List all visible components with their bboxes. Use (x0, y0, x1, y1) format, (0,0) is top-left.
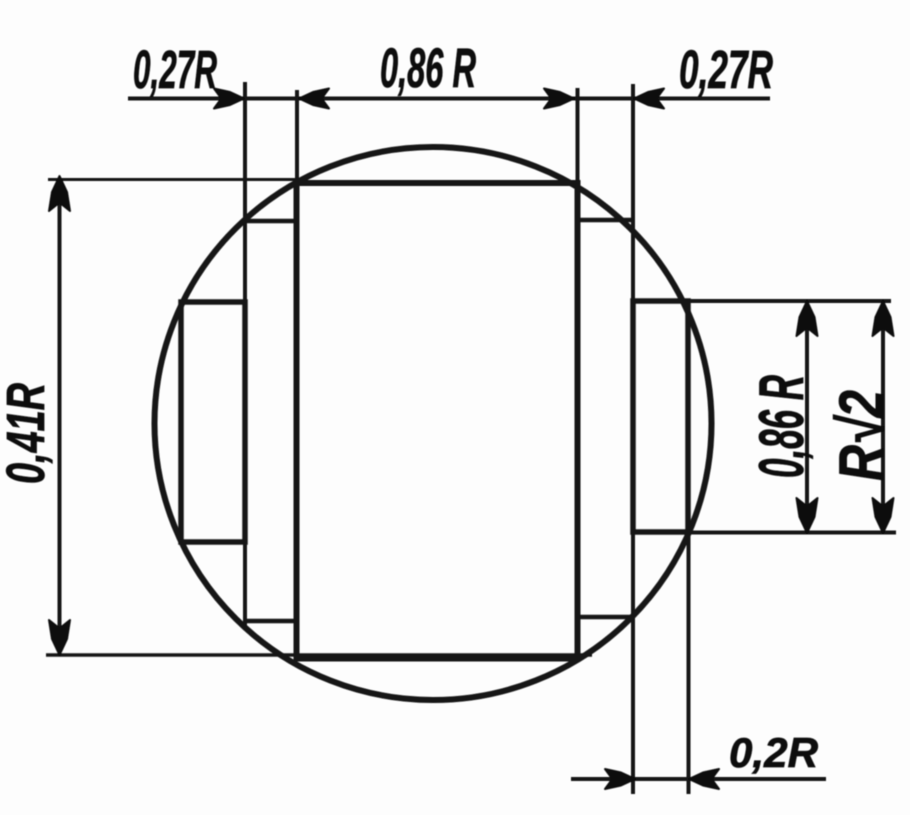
svg-text:0,86 R: 0,86 R (380, 36, 476, 99)
svg-text:0,27R: 0,27R (679, 40, 773, 100)
svg-text:0,86 R: 0,86 R (747, 375, 817, 478)
svg-text:0,27R: 0,27R (133, 40, 217, 100)
svg-text:0,2R: 0,2R (729, 729, 819, 776)
svg-text:R√2: R√2 (827, 390, 897, 481)
svg-text:0,41R: 0,41R (0, 383, 56, 484)
